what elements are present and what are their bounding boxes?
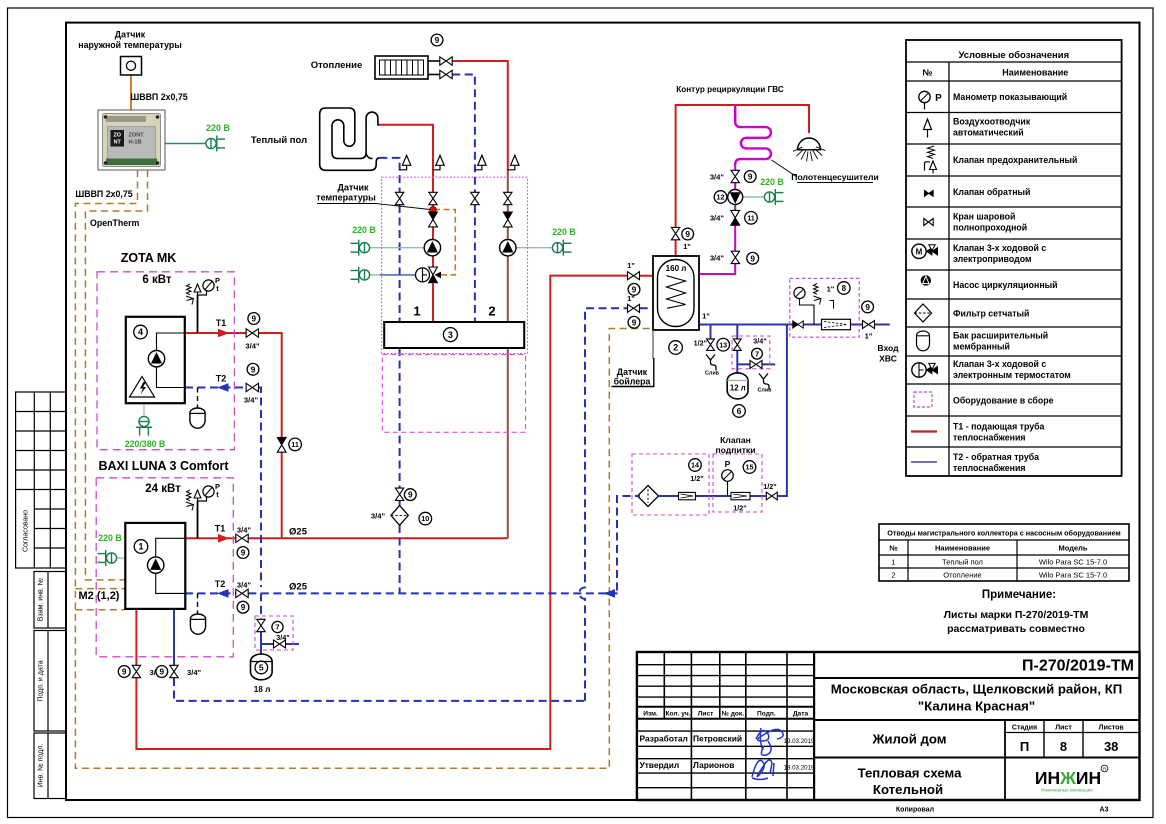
pipe: T1 to tank coil (right loop) <box>135 609 137 665</box>
svg-text:18 л: 18 л <box>254 685 271 694</box>
wire ZONT to 220V plug <box>165 143 206 145</box>
BAXI power plug <box>117 557 125 559</box>
svg-text:3/4": 3/4" <box>710 173 725 182</box>
svg-text:Датчик: Датчик <box>617 367 648 377</box>
shower head <box>798 138 821 150</box>
pipe: floor heating return <box>379 158 399 192</box>
svg-text:220 В: 220 В <box>552 227 575 237</box>
svg-text:Кран шаровой: Кран шаровой <box>953 212 1015 222</box>
svg-text:4: 4 <box>138 327 143 337</box>
svg-text:№: № <box>889 544 897 553</box>
svg-text:1/2": 1/2" <box>733 504 746 513</box>
svg-text:Отопление: Отопление <box>943 571 981 580</box>
pipe: floor heating supply riser 1 <box>379 125 433 192</box>
svg-text:Слив: Слив <box>758 388 773 394</box>
svg-text:ХВС: ХВС <box>879 354 897 364</box>
svg-text:Изм.: Изм. <box>643 710 658 717</box>
svg-text:3/4": 3/4" <box>237 581 252 590</box>
svg-text:9: 9 <box>122 668 127 677</box>
wire A branch to BAXI <box>75 588 124 590</box>
svg-text:1": 1" <box>627 261 635 270</box>
svg-text:220 В: 220 В <box>352 225 375 235</box>
radiator stubs + valves <box>428 60 440 62</box>
svg-text:П-270/2019-ТМ: П-270/2019-ТМ <box>1022 658 1134 675</box>
svg-text:Отопление: Отопление <box>311 60 363 71</box>
svg-text:Модель: Модель <box>1058 544 1087 553</box>
svg-text:Ø25: Ø25 <box>289 582 308 593</box>
svg-text:3/4": 3/4" <box>753 337 766 346</box>
box manifold assembly <box>382 177 528 353</box>
svg-text:38: 38 <box>1104 739 1118 754</box>
stub valve 13 drain <box>710 325 712 339</box>
svg-text:Вход: Вход <box>877 343 899 353</box>
svg-text:наружной температуры: наружной температуры <box>78 40 182 50</box>
table otvody <box>879 524 1129 581</box>
reducer rect <box>822 319 851 329</box>
svg-text:12 л: 12 л <box>730 384 746 393</box>
box ZOTA assembly <box>97 272 234 450</box>
svg-text:13: 13 <box>719 340 727 349</box>
svg-text:Дата: Дата <box>793 710 809 717</box>
svg-text:Лист: Лист <box>1055 725 1072 732</box>
check valve 11 <box>277 437 286 444</box>
svg-text:3/4": 3/4" <box>237 526 252 535</box>
3-way valve with thermostat <box>416 268 430 282</box>
svg-text:T1: T1 <box>216 318 227 328</box>
svg-text:Наименование: Наименование <box>1002 68 1068 78</box>
pipe: make-up water line <box>617 496 640 591</box>
pipe: radiator supply line <box>452 61 508 171</box>
svg-text:Теплый пол: Теплый пол <box>251 135 307 146</box>
svg-text:1": 1" <box>683 242 691 251</box>
svg-text:19.03.2019: 19.03.2019 <box>784 738 816 745</box>
svg-text:7: 7 <box>755 349 759 358</box>
pipe: BAXI return loop to tank <box>173 609 175 665</box>
manifold-T2 valve & filter <box>395 488 403 500</box>
svg-text:OpenTherm: OpenTherm <box>90 218 140 228</box>
BAXI bottom valves <box>132 665 140 677</box>
svg-text:Подп. и дата: Подп. и дата <box>38 660 45 701</box>
pump1 power <box>369 247 424 249</box>
ZOTA power plug <box>143 403 145 416</box>
svg-text:подпитки: подпитки <box>715 445 755 455</box>
svg-text:Бак расширительный: Бак расширительный <box>953 331 1048 341</box>
svg-text:3/4": 3/4" <box>187 668 202 677</box>
svg-text:M2 (1,2): M2 (1,2) <box>79 590 120 602</box>
svg-text:24 кВт: 24 кВт <box>145 483 181 495</box>
box 14 <box>632 454 709 515</box>
svg-text:3/4": 3/4" <box>245 342 260 351</box>
svg-text:теплоснабжения: теплоснабжения <box>953 433 1026 443</box>
svg-text:Манометр показывающий: Манометр показывающий <box>953 92 1067 102</box>
svg-text:Теплый пол: Теплый пол <box>942 558 983 567</box>
svg-text:Подп.: Подп. <box>757 710 776 717</box>
svg-text:1": 1" <box>865 332 873 341</box>
box 15 <box>713 454 762 512</box>
svg-text:3/4": 3/4" <box>276 633 289 642</box>
svg-text:10: 10 <box>421 514 429 523</box>
towel circuit valves <box>731 170 739 182</box>
svg-text:Клапан: Клапан <box>720 435 751 445</box>
svg-text:Листы марки П-270/2019-ТМ: Листы марки П-270/2019-ТМ <box>944 609 1089 621</box>
left stamp grid <box>16 392 66 799</box>
svg-text:Фильтр сетчатый: Фильтр сетчатый <box>953 309 1029 319</box>
svg-text:1: 1 <box>138 542 143 552</box>
pipe T1 ZOTA out <box>185 332 246 334</box>
svg-text:рассматривать совместно: рассматривать совместно <box>947 623 1085 635</box>
floor heating coil <box>320 108 380 170</box>
svg-text:Клапан 3-х ходовой с: Клапан 3-х ходовой с <box>953 243 1046 253</box>
svg-text:2: 2 <box>673 343 678 353</box>
wire: temp sensor to 3-way valve (orange dashed) <box>434 210 455 275</box>
svg-text:П: П <box>1020 739 1029 754</box>
air vents <box>400 165 407 170</box>
svg-text:3: 3 <box>448 330 453 340</box>
svg-text:1/2": 1/2" <box>694 339 707 348</box>
svg-text:Разработал: Разработал <box>640 734 688 744</box>
svg-text:теплоснабжения: теплоснабжения <box>953 463 1026 473</box>
svg-text:Взам. инв. №: Взам. инв. № <box>38 578 45 621</box>
svg-text:№ док.: № док. <box>722 710 745 717</box>
signatures <box>756 728 783 755</box>
svg-text:электроприводом: электроприводом <box>953 254 1031 264</box>
svg-text:температуры: температуры <box>316 193 376 203</box>
svg-text:9: 9 <box>408 491 413 500</box>
tank left valves <box>628 272 640 280</box>
pump12 power <box>743 196 765 198</box>
tank 160l indirect boiler <box>653 256 699 330</box>
svg-text:Жилой дом: Жилой дом <box>871 732 946 747</box>
svg-text:№: № <box>922 68 932 78</box>
svg-text:220 В: 220 В <box>760 177 783 187</box>
svg-text:Московская область, Щелковский: Московская область, Щелковский район, КП <box>831 682 1123 697</box>
svg-text:8: 8 <box>1060 739 1067 754</box>
svg-text:мембранный: мембранный <box>953 342 1010 352</box>
svg-text:15: 15 <box>746 463 754 472</box>
svg-text:T2: T2 <box>216 374 227 384</box>
pipe: exp tank 5 branch <box>260 593 262 619</box>
manifold collector <box>384 322 524 348</box>
group 8: gauge + safety + reducer <box>794 287 805 298</box>
ZOTA gauge assembly <box>197 295 199 333</box>
riser valves <box>395 192 403 204</box>
pipe: manifold return down to T2 <box>399 348 401 488</box>
BAXI gauge assembly <box>197 501 199 538</box>
ZONT H-1B controller <box>98 110 165 170</box>
stub tank6 branch <box>736 325 738 339</box>
svg-text:9: 9 <box>241 549 246 558</box>
box 8 <box>790 278 859 337</box>
riser check valves <box>429 212 438 219</box>
svg-text:Наименование: Наименование <box>935 544 990 553</box>
svg-text:Клапан обратный: Клапан обратный <box>953 187 1030 197</box>
svg-text:6: 6 <box>737 406 742 416</box>
svg-text:Клапан 3-х ходовой с: Клапан 3-х ходовой с <box>953 359 1046 369</box>
svg-text:9: 9 <box>251 365 256 374</box>
ZOTA exp tank <box>197 388 199 410</box>
svg-text:9: 9 <box>685 230 690 239</box>
legend symbols <box>919 91 930 102</box>
svg-text:Воздухоотводчик: Воздухоотводчик <box>953 117 1031 127</box>
svg-text:ШВВП 2x0,75: ШВВП 2x0,75 <box>75 189 132 199</box>
svg-text:Датчик: Датчик <box>337 183 369 193</box>
svg-text:электронным термостатом: электронным термостатом <box>953 370 1071 380</box>
svg-text:T1: T1 <box>215 524 226 534</box>
svg-text:9: 9 <box>435 36 440 45</box>
svg-text:1: 1 <box>891 558 895 567</box>
svg-text:автоматический: автоматический <box>953 128 1024 138</box>
box7 components <box>733 339 741 351</box>
pipe: DHW hot top line <box>675 240 677 256</box>
tank 6 (12l) <box>727 373 748 399</box>
svg-text:1": 1" <box>827 285 835 294</box>
svg-text:9: 9 <box>632 318 637 327</box>
riser 2 dark red through pumps to manifold and below <box>507 205 509 212</box>
svg-text:H-1B: H-1B <box>129 140 142 146</box>
svg-text:"Калина Красная": "Калина Красная" <box>918 699 1035 714</box>
svg-text:160 л: 160 л <box>666 264 687 273</box>
pipe: radiator return <box>452 75 475 193</box>
svg-text:Р: Р <box>935 93 942 104</box>
svg-text:1": 1" <box>702 312 710 321</box>
svg-text:Отводы магистрального коллекто: Отводы магистрального коллектора с насос… <box>887 529 1121 538</box>
svg-text:полнопроходной: полнопроходной <box>953 223 1027 233</box>
pump2 power <box>516 247 552 249</box>
temp sensor dot <box>430 206 437 213</box>
svg-text:Согласовано: Согласовано <box>23 510 30 552</box>
pipe T2 ZOTA return <box>185 387 246 389</box>
filter diamond <box>638 486 659 507</box>
svg-text:3/4": 3/4" <box>244 396 259 405</box>
svg-text:Инв. № подл.: Инв. № подл. <box>38 744 45 788</box>
pipe: towel rail recirculation <box>699 263 735 274</box>
svg-text:T2: T2 <box>215 579 226 589</box>
riser pumps <box>424 240 440 256</box>
check valve on XVS <box>793 321 798 328</box>
svg-text:Т1 - подающая труба: Т1 - подающая труба <box>953 422 1045 432</box>
svg-text:ИНЖИН: ИНЖИН <box>1035 768 1101 788</box>
warning triangle <box>130 377 155 398</box>
svg-text:Wilo Para SC 15-7.0: Wilo Para SC 15-7.0 <box>1039 571 1107 580</box>
svg-text:ZOTA MK: ZOTA MK <box>121 251 177 265</box>
svg-text:бойлера: бойлера <box>614 377 651 387</box>
svg-text:BAXI LUNA 3 Comfort: BAXI LUNA 3 Comfort <box>98 459 229 473</box>
svg-text:1": 1" <box>627 294 635 303</box>
svg-text:Клапан предохранительный: Клапан предохранительный <box>953 155 1077 165</box>
svg-text:14: 14 <box>691 461 699 470</box>
wire A: ZONT to bottom sensor run (brown dashed) <box>75 170 652 768</box>
pipe: cold water main <box>699 324 890 326</box>
svg-text:P: P <box>725 459 731 469</box>
box BAXI assembly <box>96 478 233 657</box>
svg-text:Условные обозначения: Условные обозначения <box>958 50 1069 61</box>
svg-text:11: 11 <box>747 213 755 222</box>
valve 13 + drain <box>707 339 715 351</box>
radiator <box>375 56 428 79</box>
vertical with bridge over T2 <box>579 308 627 701</box>
svg-text:220 В: 220 В <box>98 533 121 543</box>
svg-text:Копировал: Копировал <box>896 807 934 814</box>
svg-text:9: 9 <box>160 668 165 677</box>
pipe T1 BAXI out / main to manifold riser 2 <box>185 537 236 539</box>
svg-text:8: 8 <box>842 284 847 293</box>
svg-text:Инженерные инновации: Инженерные инновации <box>1041 788 1093 793</box>
wire B: ZONT OpenTherm to BAXI (brown dashed) <box>85 170 147 580</box>
svg-text:6 кВт: 6 кВт <box>142 274 171 286</box>
svg-text:9: 9 <box>748 173 753 182</box>
svg-text:NT: NT <box>114 140 122 146</box>
box 7 <box>732 336 770 369</box>
svg-text:Тепловая схема: Тепловая схема <box>858 766 962 781</box>
svg-text:220/380 В: 220/380 В <box>125 439 166 449</box>
svg-text:Слив: Слив <box>705 371 720 377</box>
svg-text:7: 7 <box>275 623 279 632</box>
svg-text:Петровский: Петровский <box>693 734 742 744</box>
pipe T2 main <box>185 592 236 594</box>
svg-text:Листов: Листов <box>1099 725 1125 732</box>
title block <box>637 652 1140 800</box>
svg-text:М: М <box>916 248 923 257</box>
svg-text:1/2": 1/2" <box>690 474 703 483</box>
3way power <box>369 274 380 276</box>
svg-text:ZONT: ZONT <box>129 133 145 139</box>
svg-text:2: 2 <box>488 304 495 319</box>
svg-text:3/4": 3/4" <box>371 512 386 521</box>
svg-text:Полотенцесушители: Полотенцесушители <box>791 172 878 182</box>
towel serpentine coil <box>735 105 771 165</box>
svg-text:9: 9 <box>865 303 870 312</box>
svg-text:Wilo Para SC 15-7.0: Wilo Para SC 15-7.0 <box>1039 558 1107 567</box>
svg-text:Ø25: Ø25 <box>289 527 308 538</box>
svg-text:12: 12 <box>717 193 725 202</box>
svg-text:Утвердил: Утвердил <box>640 760 680 770</box>
valve on tank5 line <box>257 619 265 631</box>
gauge 15 <box>722 470 734 482</box>
svg-text:9: 9 <box>241 603 246 612</box>
svg-text:Т2 - обратная труба: Т2 - обратная труба <box>953 452 1039 462</box>
svg-text:1: 1 <box>413 304 420 319</box>
boiler sensor label box <box>652 330 654 359</box>
BAXI exp tank <box>197 593 199 615</box>
tank top valve <box>671 227 679 239</box>
svg-text:Стадия: Стадия <box>1012 725 1037 732</box>
svg-text:Контур рециркуляции ГВС: Контур рециркуляции ГВС <box>676 85 784 94</box>
svg-text:Насос циркуляционный: Насос циркуляционный <box>953 280 1058 290</box>
svg-text:11: 11 <box>291 440 299 449</box>
svg-text:Датчик: Датчик <box>115 30 146 40</box>
svg-text:Кол. уч.: Кол. уч. <box>665 710 690 717</box>
outdoor temp sensor <box>121 57 142 76</box>
svg-text:9: 9 <box>750 254 755 263</box>
svg-text:19.03.2019: 19.03.2019 <box>784 765 816 772</box>
svg-text:5: 5 <box>259 663 264 673</box>
svg-text:1/2": 1/2" <box>763 482 776 491</box>
wire: outdoor sensor to ZONT (orange solid) <box>130 75 132 110</box>
svg-text:Котельной: Котельной <box>873 782 943 797</box>
exp tank 5 <box>251 654 273 680</box>
svg-text:Оборудование в сборе: Оборудование в сборе <box>953 396 1054 406</box>
svg-text:ШВВП 2x0,75: ШВВП 2x0,75 <box>130 92 187 102</box>
svg-text:Ларионов: Ларионов <box>693 760 734 770</box>
svg-text:220 В: 220 В <box>206 123 231 133</box>
legend table <box>906 40 1122 476</box>
box exp tank5 valve <box>255 616 293 650</box>
svg-text:2: 2 <box>891 571 895 580</box>
svg-text:9: 9 <box>252 315 257 324</box>
svg-text:ZO: ZO <box>113 133 121 139</box>
svg-text:3/4": 3/4" <box>710 214 725 223</box>
svg-text:Примечание:: Примечание: <box>982 589 1056 601</box>
svg-text:3/4": 3/4" <box>710 254 725 263</box>
svg-text:Лист: Лист <box>698 710 714 717</box>
T1 arrow ZOTA <box>218 329 230 338</box>
svg-text:А3: А3 <box>1100 807 1109 814</box>
